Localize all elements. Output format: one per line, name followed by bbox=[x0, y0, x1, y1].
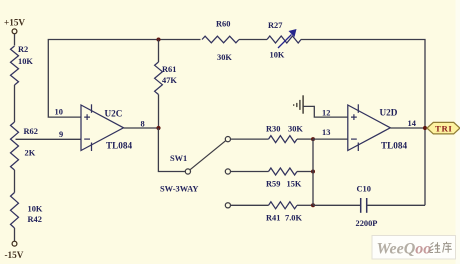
capacitor C10 2200P bbox=[356, 184, 378, 228]
svg-text:R59: R59 bbox=[266, 180, 280, 189]
wire R60 to R27 bbox=[239, 39, 267, 41]
node top bus / R61 bbox=[157, 38, 161, 42]
svg-text:15K: 15K bbox=[287, 180, 302, 189]
svg-text:30K: 30K bbox=[288, 125, 303, 134]
resistor R60 30K bbox=[202, 20, 239, 63]
svg-text:SW1: SW1 bbox=[170, 154, 187, 163]
node R59/bus bbox=[311, 170, 315, 174]
svg-text:SW-3WAY: SW-3WAY bbox=[160, 185, 198, 194]
svg-text:30K: 30K bbox=[217, 53, 232, 62]
svg-text:U2D: U2D bbox=[380, 108, 398, 118]
resistor R2 10K bbox=[11, 45, 34, 85]
svg-text:-15V: -15V bbox=[5, 250, 24, 260]
svg-text:9: 9 bbox=[59, 130, 63, 139]
vertical summing bus bbox=[312, 139, 314, 205]
ground bbox=[294, 95, 303, 113]
svg-text:10K: 10K bbox=[18, 57, 33, 66]
wire ground to pin 12 bbox=[303, 106, 348, 117]
svg-text:C10: C10 bbox=[357, 184, 371, 193]
svg-text:8: 8 bbox=[141, 119, 145, 128]
resistor R62 2K bbox=[11, 122, 38, 170]
wire U2C output down to SW1 common bbox=[158, 128, 185, 172]
svg-text:R42: R42 bbox=[28, 215, 42, 224]
svg-text:TL084: TL084 bbox=[381, 140, 407, 150]
switch SW1 SW-3WAY bbox=[160, 137, 230, 208]
svg-text:+15V: +15V bbox=[4, 18, 25, 28]
svg-text:R2: R2 bbox=[18, 45, 28, 54]
svg-text:WeeQoo: WeeQoo bbox=[377, 241, 432, 258]
wire node to pin 13 bbox=[313, 138, 348, 140]
wire R41 node to C10 bbox=[313, 204, 361, 206]
svg-text:10K: 10K bbox=[270, 51, 285, 60]
wire R61 bottom lead bbox=[158, 95, 160, 129]
resistor R41 7.0K bbox=[266, 202, 302, 223]
op-amp U2D TL084 bbox=[348, 104, 408, 151]
svg-text:R61: R61 bbox=[162, 65, 176, 74]
wire R62 to R42 bbox=[14, 170, 16, 193]
svg-text:10: 10 bbox=[55, 107, 63, 116]
svg-text:R27: R27 bbox=[268, 21, 282, 30]
svg-text:U2C: U2C bbox=[105, 109, 123, 119]
power terminal +15V bbox=[4, 18, 25, 34]
node R30/bus bbox=[311, 137, 315, 141]
svg-text:12: 12 bbox=[322, 109, 330, 118]
op-amp U2C TL084 bbox=[81, 104, 132, 151]
wire R41 to bus bbox=[297, 204, 313, 206]
wire SW1 throw2 to R59 bbox=[231, 171, 269, 173]
resistor R30 30K bbox=[266, 125, 303, 143]
node U2D output / bus / TRI bbox=[423, 126, 427, 130]
wire R61 top lead bbox=[158, 40, 160, 63]
svg-text:47K: 47K bbox=[162, 76, 177, 85]
wire R30 to node 13 bbox=[297, 138, 313, 140]
svg-text:R62: R62 bbox=[24, 127, 38, 136]
node U2C output bbox=[156, 126, 160, 130]
svg-text:R60: R60 bbox=[216, 20, 230, 29]
wire U2D output bbox=[390, 127, 425, 129]
wire SW1 throw1 to R30 bbox=[231, 138, 269, 140]
svg-text:TRI: TRI bbox=[435, 123, 452, 133]
svg-text:R30: R30 bbox=[266, 125, 280, 134]
wire SW1 throw3 to R41 bbox=[231, 204, 269, 206]
wire R2 to R62 bbox=[14, 85, 16, 122]
potentiometer R27 10K bbox=[267, 21, 301, 60]
wire R42 to -15V bbox=[14, 228, 16, 241]
wire +15V to R2 bbox=[14, 34, 16, 46]
wire C10 to right bus bbox=[367, 204, 425, 206]
wire pin 9 from divider bbox=[16, 138, 82, 140]
wire R59 to bus bbox=[297, 171, 313, 173]
svg-text:TL084: TL084 bbox=[106, 140, 132, 150]
power terminal -15V bbox=[5, 241, 24, 260]
watermark bbox=[372, 236, 456, 260]
wire R27 to right bus, right bus down bbox=[301, 40, 425, 206]
resistor R59 15K bbox=[266, 168, 302, 189]
svg-text:2K: 2K bbox=[25, 149, 36, 158]
svg-text:R41: R41 bbox=[266, 214, 280, 223]
svg-text:10K: 10K bbox=[28, 205, 43, 214]
svg-text:13: 13 bbox=[322, 128, 330, 137]
node R41/bus bbox=[311, 203, 315, 207]
svg-text:7.0K: 7.0K bbox=[285, 214, 302, 223]
svg-text:2200P: 2200P bbox=[356, 219, 378, 228]
resistor R61 47K bbox=[155, 62, 178, 95]
resistor R42 10K bbox=[11, 193, 43, 229]
svg-text:14: 14 bbox=[408, 119, 417, 128]
wire pin10 riser and top bus left bbox=[48, 40, 200, 118]
wire U2C output bbox=[124, 127, 159, 129]
port TRI bbox=[427, 122, 460, 133]
